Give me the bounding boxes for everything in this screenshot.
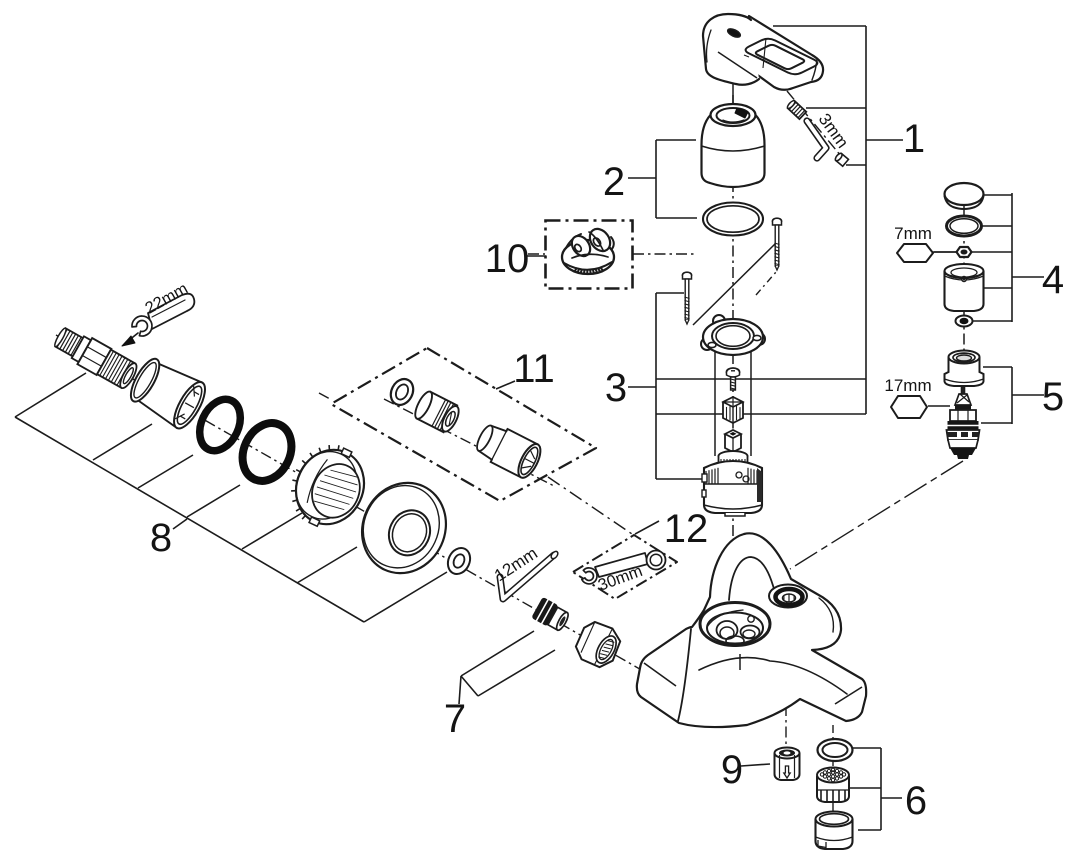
bracket part9 [741, 764, 770, 766]
part1 3mm allen key [807, 121, 826, 158]
body cartridge seat holes [717, 621, 738, 639]
part8 o-ring large 1 [192, 393, 248, 458]
wire screws diagonal leader [693, 242, 777, 325]
bracket part11 [496, 381, 515, 389]
tool 30mm wrench [595, 553, 648, 577]
wire axis part5 to body hole [790, 461, 963, 569]
wire box11 internal axis [384, 399, 556, 487]
bracket part8 comb [15, 373, 86, 417]
part3 left screw [683, 272, 692, 324]
wire box11 to box12 axis [548, 477, 632, 534]
svg-text:8: 8 [150, 516, 172, 560]
part8 small washer [444, 544, 474, 577]
part8 s-union nipple [51, 323, 140, 391]
svg-text:5: 5 [1042, 375, 1064, 419]
part8 escutcheon rosette [347, 469, 460, 587]
wire aerator axis [785, 705, 787, 748]
part1 lever handle plate [733, 16, 823, 90]
body beam end face edge [835, 687, 862, 704]
part1 handle small marks [763, 38, 766, 68]
bracket part10 [525, 255, 546, 257]
part4 housing cylinder [945, 264, 984, 311]
part1 grub screw [786, 100, 806, 120]
part4 cap disc [945, 183, 984, 205]
body faucet housing [637, 533, 866, 727]
tool 22mm arrow [128, 333, 138, 341]
part2 dome cap [702, 115, 765, 187]
part10 diverter ears [568, 232, 594, 259]
part7 threaded plug [531, 596, 572, 634]
svg-text:7mm: 7mm [894, 224, 932, 243]
part11 o-ring small [387, 375, 418, 409]
box part12 frame [573, 535, 677, 599]
part11 check valve [412, 389, 463, 435]
bracket part4 [1011, 193, 1013, 322]
svg-text:9: 9 [721, 748, 743, 792]
part1 handle cutout ring [746, 39, 818, 74]
wire part8 chain axis [56, 335, 652, 676]
part11 socket sleeve [472, 419, 545, 481]
part1 plate end cap line [812, 59, 817, 80]
svg-text:2: 2 [603, 160, 625, 204]
svg-text:12: 12 [664, 507, 709, 551]
part8 o-ring large 2 [233, 415, 300, 489]
part8 slip nut [278, 433, 377, 538]
svg-text:7: 7 [444, 697, 466, 741]
part4 nut [957, 247, 972, 257]
svg-text:6: 6 [905, 779, 927, 823]
bracket part12 [635, 521, 659, 534]
part6 shell [816, 812, 853, 850]
part5 bushing [945, 351, 984, 387]
part3 small screw [727, 368, 740, 390]
bracket part6 [880, 748, 882, 830]
wire handle screw axis diagonal [787, 91, 846, 162]
part3 right screw [773, 218, 782, 270]
part4 washer [956, 316, 973, 327]
svg-text:10: 10 [485, 237, 530, 281]
box part10 frame [546, 221, 633, 289]
body dome inner arc [729, 557, 776, 600]
part3 cartridge [702, 430, 762, 516]
svg-text:11: 11 [513, 347, 555, 391]
body spout top crease [644, 663, 676, 686]
part1 plate knob joint line [718, 52, 757, 78]
body front crease [699, 658, 847, 694]
part3 adapter nut [723, 397, 743, 423]
bracket part5 [1011, 367, 1013, 424]
hex 7mm [897, 244, 933, 262]
svg-text:4: 4 [1042, 258, 1064, 302]
part1 knob inner arc [707, 30, 712, 62]
wire main vertical axis [732, 95, 734, 632]
svg-text:17mm: 17mm [884, 376, 931, 395]
box part11 frame [331, 348, 596, 501]
part1 handle top mark [726, 27, 741, 39]
part8 sleeve cup [124, 353, 211, 433]
part3 mounting flange [701, 315, 765, 355]
hex 17mm [891, 396, 927, 418]
bracket part2 [655, 140, 657, 218]
body outlet hole [769, 585, 807, 608]
svg-text:1: 1 [903, 117, 925, 161]
part2 o-ring [703, 203, 763, 236]
part1 lever handle knob [703, 14, 759, 85]
part6 o-ring [818, 739, 853, 761]
svg-text:3: 3 [605, 366, 627, 410]
body spout tip face edge [678, 629, 691, 721]
part9 coupling [775, 748, 800, 781]
bracket part7 [459, 676, 461, 704]
wire part4-5 vertical axis [963, 183, 965, 459]
wire box10 horizontal axis [528, 253, 545, 255]
bracket part3 [655, 293, 657, 479]
part4 o-ring [947, 216, 982, 236]
tool 22mm wrench [148, 294, 194, 329]
tool 12mm allen key [500, 555, 554, 599]
part6 aerator insert [817, 768, 849, 803]
part2 cap notch [735, 108, 748, 118]
part2 cap mid line [702, 146, 765, 151]
part10 diverter [562, 240, 614, 274]
part1 key end cap [834, 152, 848, 166]
body deck ellipse [700, 603, 770, 646]
bracket part1 [865, 26, 867, 414]
part5 thermostatic cartridge [947, 387, 980, 459]
body slab corner inner arc [819, 598, 833, 632]
wire flange projection lines [714, 350, 716, 456]
part7 hex nut [570, 616, 626, 672]
